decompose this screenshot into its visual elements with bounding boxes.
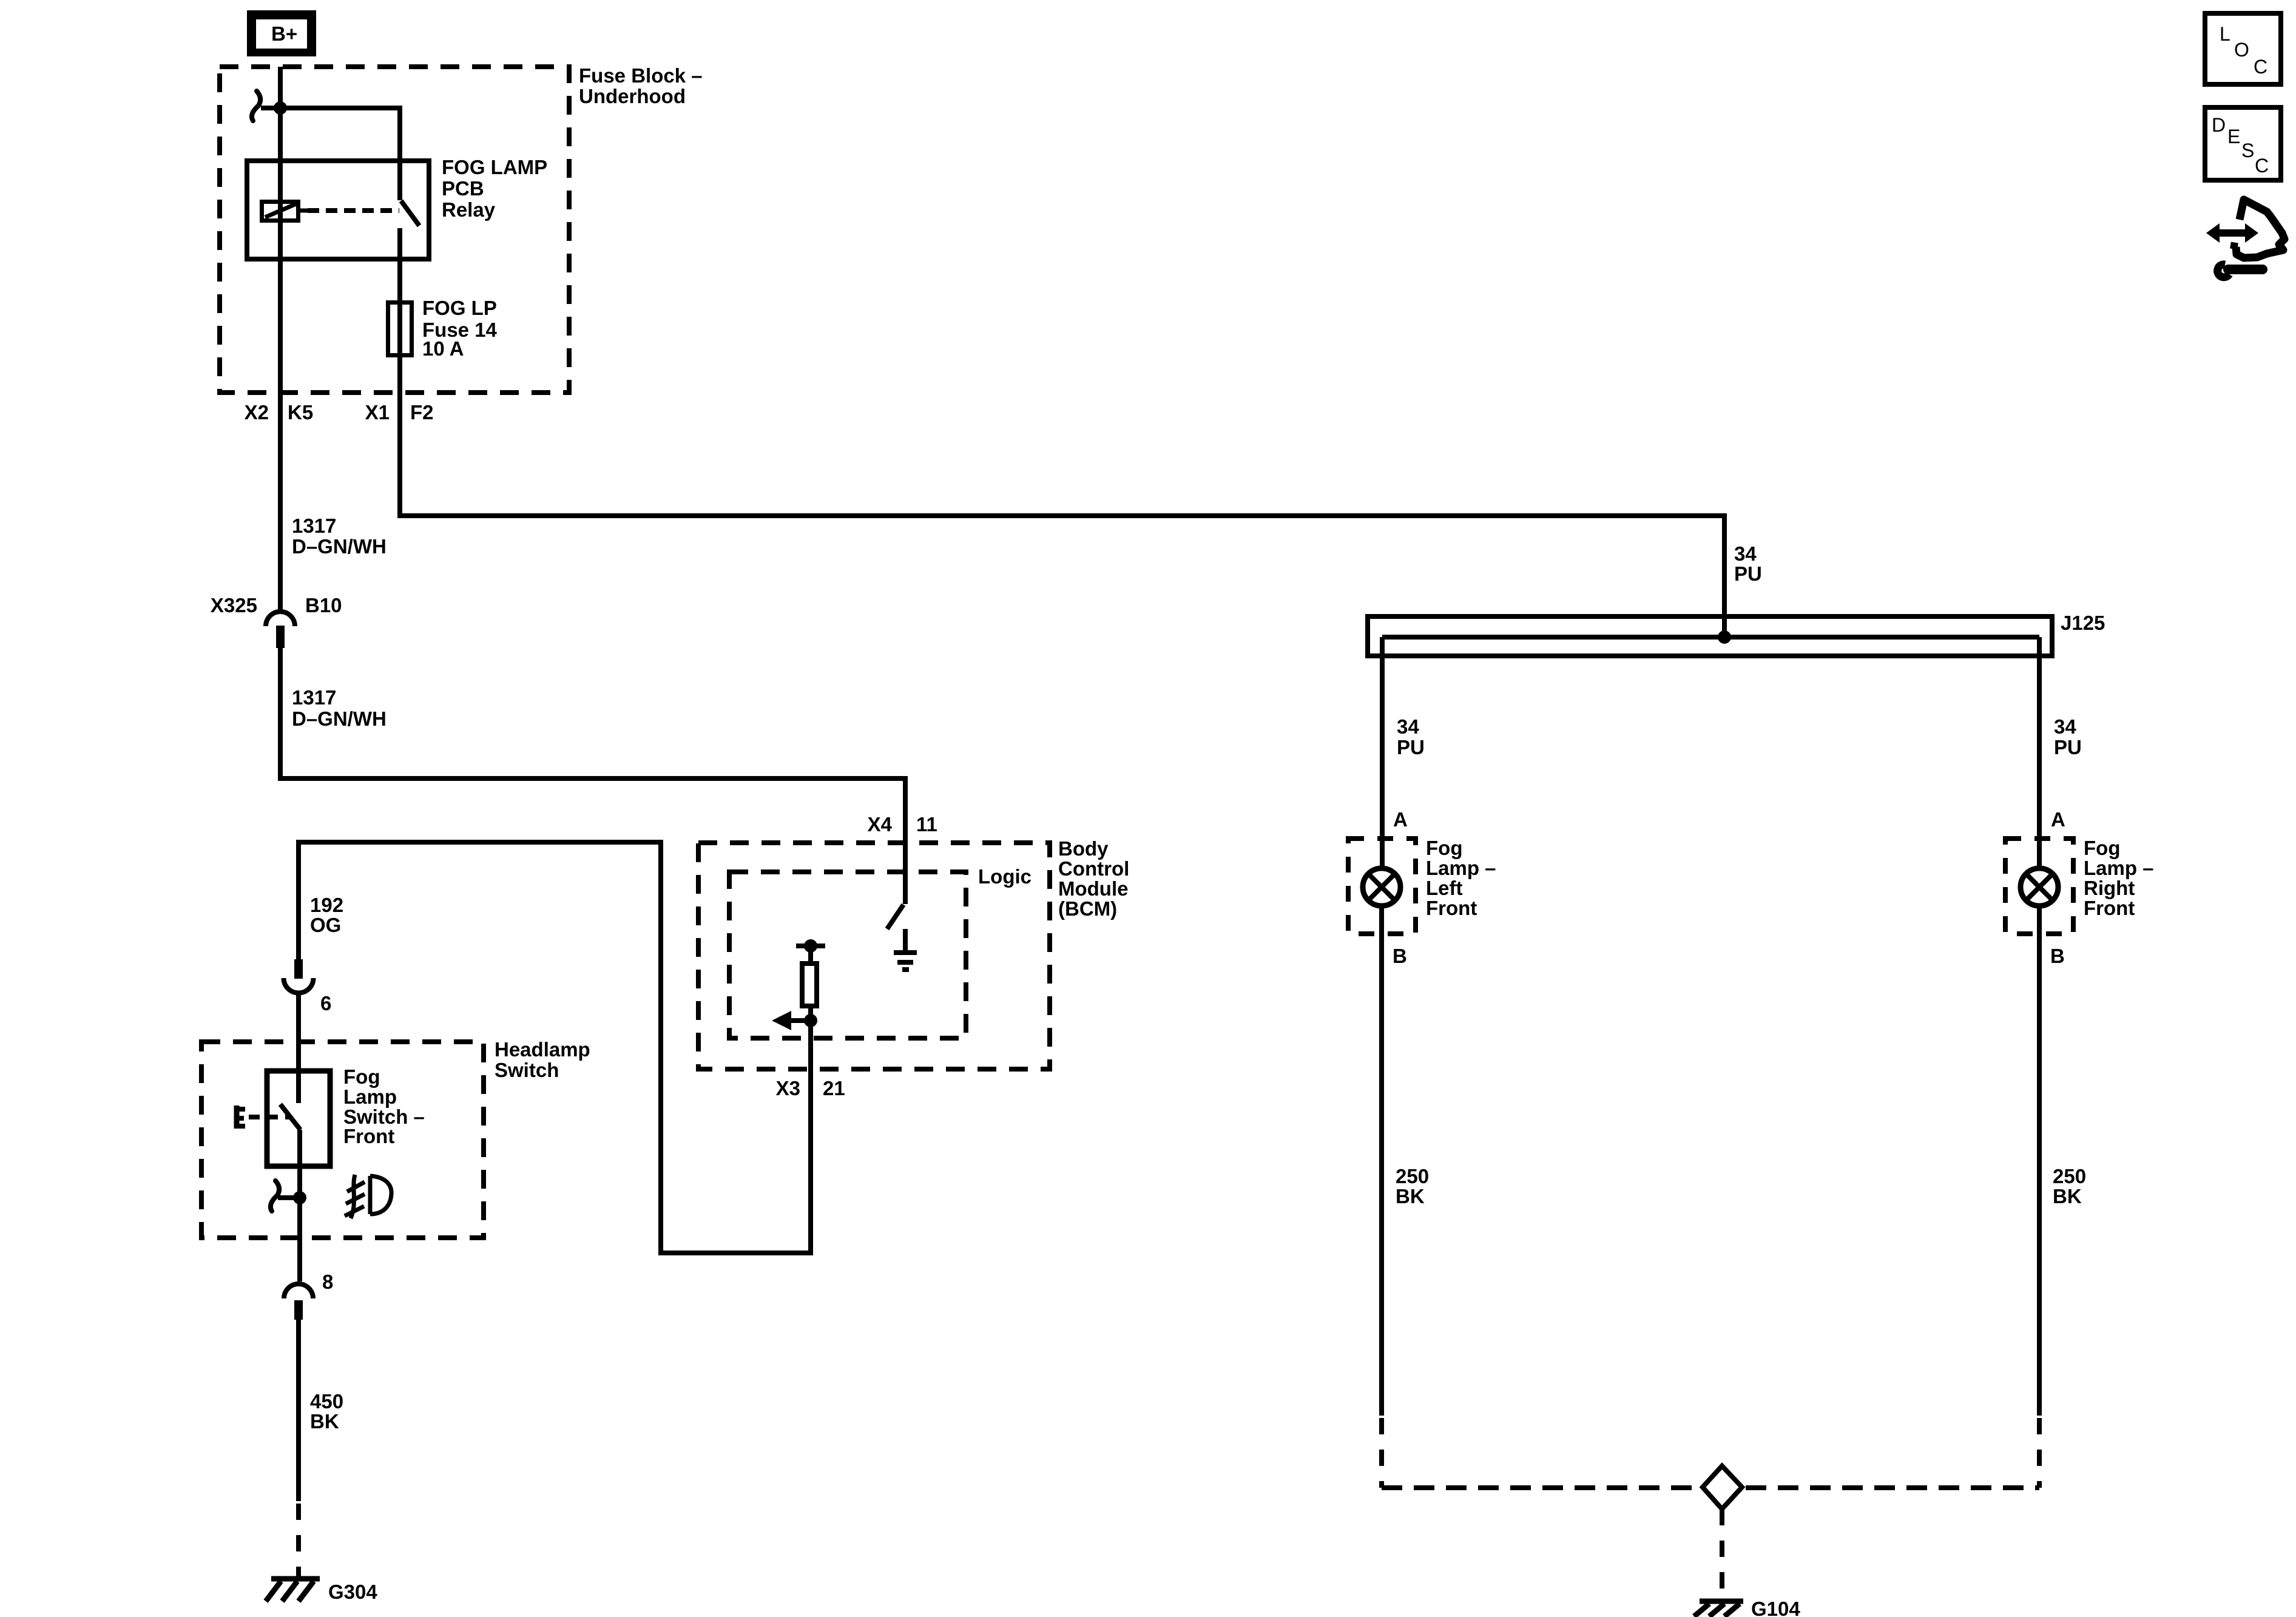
relay switch blade — [401, 201, 419, 226]
junction dot — [274, 101, 287, 115]
relay FOG LAMP PCB box — [247, 161, 429, 259]
svg-text:Underhood: Underhood — [579, 85, 686, 107]
wire right lamp ground 250 BK — [2037, 906, 2042, 1416]
svg-text:A: A — [2051, 808, 2065, 831]
svg-text:Relay: Relay — [442, 198, 496, 221]
relay switch lower contact — [397, 228, 402, 300]
fog lamp right dashed box — [2005, 839, 2073, 934]
lower contact tick — [278, 1195, 300, 1200]
svg-text:C: C — [2255, 155, 2269, 177]
svg-text:O: O — [2234, 39, 2249, 61]
svg-text:J125: J125 — [2061, 612, 2105, 634]
wire J125 to left fog lamp — [1380, 637, 1385, 868]
wire connector to switch — [296, 993, 301, 1071]
BCM internal ground — [894, 929, 917, 970]
svg-text:B: B — [2050, 945, 2065, 967]
svg-text:1317: 1317 — [292, 686, 336, 709]
logic dashed box — [729, 872, 966, 1038]
ground G304 — [266, 1579, 320, 1601]
wire to relay switch — [261, 108, 400, 200]
svg-text:6: 6 — [320, 992, 331, 1014]
svg-text:Lamp –: Lamp – — [2084, 857, 2154, 879]
DESC reference box — [2205, 107, 2281, 180]
battery feed B+ box — [247, 10, 316, 56]
svg-text:(BCM): (BCM) — [1058, 897, 1117, 920]
svg-text:Lamp: Lamp — [343, 1085, 397, 1108]
svg-text:G304: G304 — [328, 1581, 377, 1603]
svg-text:Fog: Fog — [2084, 837, 2120, 859]
detent E symbol — [237, 1106, 245, 1129]
svg-text:X2: X2 — [245, 401, 269, 424]
svg-text:Front: Front — [1426, 897, 1477, 919]
detent dashed link — [249, 1115, 290, 1119]
svg-text:B10: B10 — [305, 594, 342, 616]
svg-text:E: E — [2227, 126, 2240, 147]
wire K5 coil feed x462 — [278, 67, 283, 610]
switch lower wire — [297, 1130, 302, 1281]
svg-text:34: 34 — [1397, 715, 1419, 738]
svg-text:B: B — [1393, 945, 1407, 967]
wire diamond to G104 — [1720, 1509, 1724, 1601]
BCM outer dashed box — [698, 843, 1050, 1069]
svg-text:PCB: PCB — [442, 177, 484, 200]
svg-text:Front: Front — [2084, 897, 2135, 919]
BCM sense tap — [796, 939, 825, 964]
fog lamp left dashed box — [1348, 839, 1416, 934]
svg-text:BK: BK — [2053, 1185, 2082, 1207]
fuse FOG LP F2 — [388, 300, 412, 357]
svg-text:PU: PU — [1734, 562, 1762, 585]
fuse block underhood dashed box — [220, 67, 569, 393]
svg-text:34: 34 — [2054, 715, 2076, 738]
svg-text:OG: OG — [310, 914, 341, 936]
splice pack J125 — [1368, 616, 2052, 656]
svg-text:8: 8 — [322, 1271, 333, 1293]
svg-text:X3: X3 — [776, 1077, 800, 1099]
headlamp switch dashed box — [201, 1042, 484, 1238]
in-line connector pin 8 — [284, 1284, 313, 1320]
svg-text:D: D — [2212, 114, 2226, 136]
svg-text:21: 21 — [823, 1077, 845, 1099]
LOC reference box — [2205, 13, 2281, 84]
svg-text:Fog: Fog — [1426, 837, 1462, 859]
splice diamond — [1703, 1466, 1742, 1509]
switch blade — [280, 1104, 300, 1130]
svg-text:PU: PU — [2054, 736, 2082, 758]
svg-text:Right: Right — [2084, 877, 2135, 899]
bus tap curl — [252, 91, 260, 121]
fog lamp left bulb — [1363, 868, 1400, 906]
svg-text:1317: 1317 — [292, 515, 336, 537]
fog lamp switch box — [267, 1071, 330, 1166]
wire left lamp ground 250 BK — [1379, 906, 1384, 1416]
svg-text:Switch: Switch — [495, 1059, 559, 1081]
svg-text:L: L — [2220, 23, 2230, 45]
svg-text:F2: F2 — [410, 401, 434, 424]
svg-text:Module: Module — [1058, 877, 1128, 900]
detent curl at lower contact — [271, 1181, 279, 1211]
svg-text:Lamp –: Lamp – — [1426, 857, 1496, 879]
svg-text:X325: X325 — [211, 594, 257, 616]
svg-text:A: A — [1393, 808, 1408, 831]
svg-text:X4: X4 — [868, 813, 893, 836]
svg-text:BK: BK — [1396, 1185, 1425, 1207]
wire X3-21 to headlamp switch — [299, 842, 811, 1253]
svg-text:FOG LAMP: FOG LAMP — [442, 156, 547, 178]
svg-text:D–GN/WH: D–GN/WH — [292, 535, 387, 558]
svg-text:Headlamp: Headlamp — [495, 1038, 590, 1061]
svg-text:192: 192 — [310, 894, 343, 916]
svg-text:S: S — [2241, 140, 2254, 161]
svg-text:10 A: 10 A — [422, 337, 464, 360]
BCM driver switch blade — [887, 905, 903, 929]
wire J125 to right fog lamp — [2037, 637, 2042, 868]
wire 450 BK to G304 — [296, 1320, 301, 1501]
svg-text:250: 250 — [2053, 1165, 2086, 1187]
svg-text:Fuse Block –: Fuse Block – — [579, 64, 703, 87]
svg-text:250: 250 — [1396, 1165, 1429, 1187]
svg-text:Front: Front — [343, 1125, 394, 1147]
ground G104 — [1694, 1601, 1743, 1616]
svg-text:Fog: Fog — [343, 1065, 380, 1088]
BCM signal arrow — [772, 1011, 817, 1030]
svg-text:PU: PU — [1397, 736, 1425, 758]
svg-text:G104: G104 — [1751, 1598, 1800, 1617]
relay coil — [262, 202, 308, 221]
wire resistor to arrow node — [808, 1006, 813, 1021]
svg-text:Left: Left — [1426, 877, 1463, 899]
service icon — [2206, 200, 2284, 277]
svg-text:11: 11 — [916, 813, 937, 836]
switch upper contact — [296, 1071, 301, 1103]
svg-text:K5: K5 — [288, 401, 313, 424]
svg-text:X1: X1 — [365, 401, 390, 424]
svg-text:450: 450 — [310, 1390, 343, 1413]
svg-text:D–GN/WH: D–GN/WH — [292, 707, 387, 730]
svg-text:C: C — [2254, 56, 2267, 78]
svg-text:FOG LP: FOG LP — [422, 297, 497, 319]
svg-text:Control: Control — [1058, 857, 1129, 880]
in-line connector pin 6 — [284, 959, 314, 993]
relay dashed link — [308, 208, 399, 213]
in-line connector X325 — [266, 612, 295, 648]
fog lamp right bulb — [2021, 868, 2058, 906]
wire X325 to BCM X4-11 — [280, 648, 905, 904]
svg-text:Logic: Logic — [978, 865, 1032, 888]
wire fuse output to J125 — [400, 357, 1724, 637]
fog lamp indicator icon — [345, 1175, 391, 1218]
svg-text:B+: B+ — [271, 22, 297, 45]
ground bus dashed wire — [1382, 1485, 2039, 1490]
BCM pull-up resistor — [802, 964, 817, 1006]
junction dot — [293, 1191, 306, 1204]
svg-text:Body: Body — [1058, 837, 1109, 860]
svg-text:BK: BK — [310, 1410, 339, 1433]
svg-text:34: 34 — [1734, 542, 1757, 565]
